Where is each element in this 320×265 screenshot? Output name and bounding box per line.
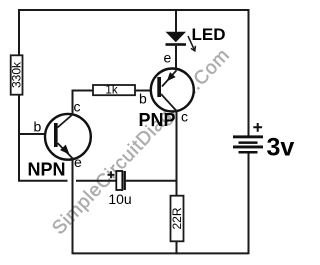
wire top rail xyxy=(18,9,250,11)
svg-text:330k: 330k xyxy=(10,61,24,88)
LED D1 xyxy=(166,32,187,46)
svg-text:LED: LED xyxy=(192,25,226,44)
svg-text:c: c xyxy=(74,99,81,115)
transistor Q2 PNP xyxy=(151,69,194,112)
wire LED anode from top rail xyxy=(175,9,177,32)
wire left vertical upper (330k top to rail) xyxy=(18,9,20,56)
wire Q2 collector down to cap node and 22R xyxy=(176,111,178,197)
wire right rail upper xyxy=(248,9,250,136)
LED emission arrow xyxy=(188,36,195,51)
resistor R1 330k xyxy=(10,55,24,94)
wire cap to Q2 collector node xyxy=(126,180,177,182)
battery B1 3v xyxy=(233,135,263,153)
wire Q1 emitter down to bottom rail xyxy=(72,159,74,255)
wire bottom rail xyxy=(73,252,249,254)
wire 1k to Q2 base xyxy=(135,90,158,92)
svg-text:PNP: PNP xyxy=(139,110,176,130)
wire left vertical lower and cap wire left segment xyxy=(19,95,68,181)
svg-text:1k: 1k xyxy=(105,84,117,96)
resistor R3 22R xyxy=(170,196,184,242)
wire 22R to bottom rail xyxy=(176,241,178,254)
svg-text:e: e xyxy=(74,154,82,170)
svg-text:e: e xyxy=(164,50,172,66)
svg-text:22R: 22R xyxy=(170,207,184,229)
wire Q1 collector up and to 1k xyxy=(73,91,94,116)
transistor Q1 NPN xyxy=(45,114,91,160)
resistor R2 1k xyxy=(93,84,135,96)
svg-text:c: c xyxy=(181,109,188,125)
svg-text:b: b xyxy=(34,119,42,135)
svg-text:10u: 10u xyxy=(108,191,131,207)
wire cap segment mid (after crossover) xyxy=(76,180,117,182)
capacitor plus sign xyxy=(108,171,115,178)
svg-text:3v: 3v xyxy=(267,133,295,161)
battery plus sign xyxy=(253,123,262,132)
svg-text:b: b xyxy=(139,91,147,107)
capacitor C1 10u xyxy=(116,171,126,190)
wire right rail lower xyxy=(248,154,250,255)
wire LED cathode to Q2 emitter xyxy=(175,46,177,70)
svg-text:NPN: NPN xyxy=(28,160,66,180)
wire NPN base tap xyxy=(19,133,55,135)
